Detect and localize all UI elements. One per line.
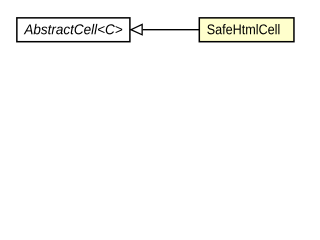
class box AbstractCell	[17, 18, 130, 42]
label SafeHtmlCell	[207, 24, 279, 34]
class box SafeHtmlCell	[199, 18, 294, 42]
generalization arrowhead	[131, 24, 142, 34]
wire inheritance connector	[143, 29, 200, 31]
label AbstractCell<C>	[24, 24, 123, 34]
